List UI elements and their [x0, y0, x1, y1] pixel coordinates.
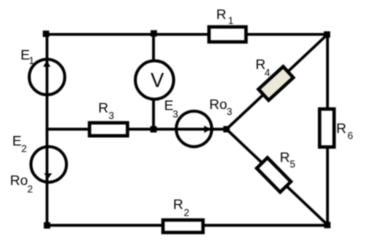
svg-text:V: V: [151, 70, 165, 92]
svg-text:E: E: [12, 133, 21, 149]
svg-text:2: 2: [27, 184, 33, 195]
svg-text:R: R: [173, 196, 183, 212]
svg-text:3: 3: [227, 107, 233, 118]
svg-text:4: 4: [265, 68, 271, 79]
svg-text:2: 2: [21, 144, 27, 155]
svg-text:R: R: [336, 120, 346, 136]
svg-text:1: 1: [29, 56, 35, 67]
svg-text:3: 3: [109, 111, 115, 122]
svg-text:2: 2: [184, 208, 190, 219]
svg-text:R: R: [98, 99, 108, 115]
svg-text:Ro: Ro: [10, 172, 28, 188]
svg-text:R: R: [280, 149, 290, 165]
svg-text:3: 3: [173, 109, 179, 120]
svg-text:1: 1: [228, 16, 234, 27]
svg-text:6: 6: [348, 131, 354, 142]
svg-text:R: R: [216, 6, 226, 22]
svg-text:Ro: Ro: [209, 96, 227, 112]
svg-text:5: 5: [290, 160, 296, 171]
